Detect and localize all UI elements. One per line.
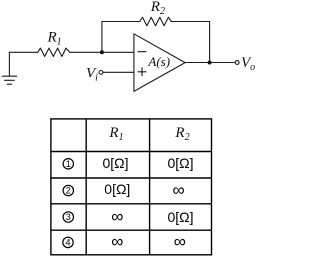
output node junction (208, 61, 212, 65)
svg-text:A(s): A(s) (147, 54, 170, 69)
wire R1 to inverting input (70, 51, 134, 53)
wire R2 to output node (174, 22, 209, 63)
row 1 circled number 1 (63, 159, 73, 169)
svg-text:2: 2 (66, 186, 71, 196)
svg-text:R2: R2 (174, 125, 189, 143)
svg-text:4: 4 (65, 238, 70, 248)
svg-text:3: 3 (66, 212, 71, 222)
wire node A up to R2 (102, 22, 140, 53)
svg-text:1: 1 (66, 159, 71, 169)
wire Vi to non-inverting input (103, 71, 134, 73)
row 3 circled number 3 (63, 212, 73, 222)
svg-text:∞: ∞ (111, 232, 123, 251)
svg-text:∞: ∞ (111, 207, 123, 226)
svg-text:0[Ω]: 0[Ω] (104, 181, 130, 197)
resistor R2 (140, 17, 175, 25)
svg-text:0[Ω]: 0[Ω] (167, 155, 193, 171)
svg-text:Vo: Vo (241, 55, 255, 73)
svg-text:R1: R1 (47, 30, 62, 48)
svg-text:∞: ∞ (173, 181, 185, 200)
wire ground to R1 (9, 52, 37, 76)
svg-text:0[Ω]: 0[Ω] (102, 155, 128, 171)
row 4 circled number 4 (63, 237, 73, 247)
resistor R1 (38, 48, 70, 56)
op-amp U1 (134, 34, 185, 92)
terminal Vo (235, 61, 239, 65)
svg-text:R1: R1 (108, 125, 123, 143)
terminal Vi (99, 71, 103, 75)
wire op-amp output to Vo (185, 62, 234, 64)
svg-text:R2: R2 (150, 0, 165, 17)
row 2 circled number 2 (63, 185, 73, 195)
table grid (51, 119, 212, 255)
non-inverting input pin + (138, 68, 146, 76)
svg-text:∞: ∞ (174, 232, 186, 251)
inverting input pin - (138, 51, 146, 53)
ground (2, 76, 16, 84)
svg-text:Vi: Vi (86, 65, 98, 83)
svg-text:0[Ω]: 0[Ω] (167, 209, 193, 225)
node A junction (100, 50, 104, 54)
